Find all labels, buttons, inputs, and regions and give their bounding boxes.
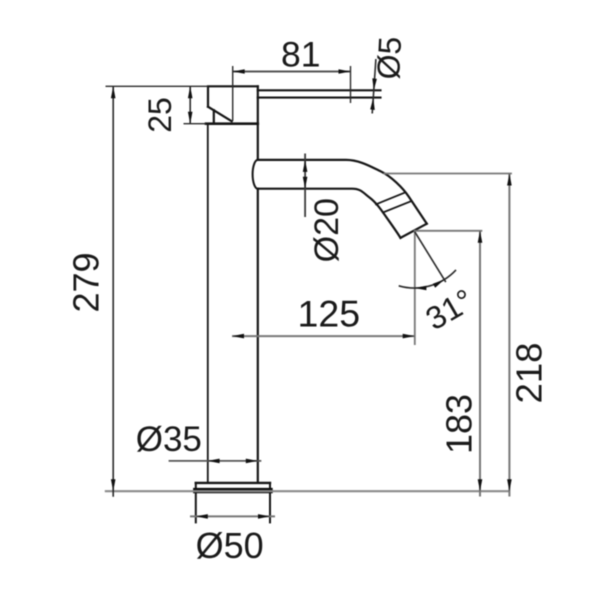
aerator joint line 1 — [376, 193, 405, 205]
svg-text:25: 25 — [142, 97, 178, 133]
svg-text:279: 279 — [66, 252, 107, 312]
svg-text:125: 125 — [298, 293, 361, 335]
angle arc 31 deg — [399, 270, 456, 288]
body left edge — [207, 124, 209, 483]
svg-text:Ø50: Ø50 — [196, 525, 264, 566]
dimension line 279 — [112, 86, 114, 497]
arrow dia5 lower — [370, 98, 375, 110]
arrow 125 right — [403, 334, 415, 339]
body right edge lower — [257, 189, 259, 483]
cartridge housing left short edge — [213, 110, 215, 124]
body right edge upper — [257, 86, 259, 160]
arrow dia35 right — [246, 459, 258, 464]
dimension line 183 — [479, 231, 481, 497]
base flange thick bottom band — [196, 488, 270, 493]
flow direction line 31 deg — [414, 231, 446, 282]
lever bottom line — [258, 97, 381, 99]
svg-text:Ø20: Ø20 — [308, 198, 346, 262]
218 top extension — [384, 173, 512, 175]
dimension line 218 — [508, 174, 510, 497]
arrow dia20 top — [303, 160, 308, 172]
svg-text:Ø35: Ø35 — [136, 420, 202, 459]
arrow dia5 upper — [372, 78, 377, 90]
aerator joint line 2 — [383, 201, 412, 212]
svg-text:81: 81 — [281, 35, 321, 75]
arrow 25 bottom — [188, 112, 193, 124]
head bottom line — [206, 122, 258, 125]
arrow angle arc left — [414, 286, 426, 291]
base flange right edge — [269, 483, 271, 523]
mounting surface line — [105, 490, 510, 492]
arrow 25 top — [188, 86, 193, 98]
arrow 183 top — [478, 231, 483, 243]
dimension line diameter 50 — [190, 515, 275, 517]
base flange left edge — [195, 483, 197, 523]
183 top extension — [414, 230, 483, 232]
lever top line — [258, 89, 381, 91]
handle cap tilted bottom edge — [208, 107, 232, 122]
arrow 218 top — [507, 174, 512, 186]
svg-text:Ø5: Ø5 — [370, 36, 408, 81]
arrow dia50 left — [196, 514, 208, 519]
spout outer (top) edge — [258, 160, 427, 224]
arrow dia20 bottom — [303, 177, 308, 189]
arrow 81 right — [339, 69, 351, 74]
dimension line 81 — [233, 71, 351, 73]
arrow dia35 left — [208, 459, 220, 464]
dimension line diameter 20 — [304, 154, 306, 218]
top extension line (y=86.3) — [106, 85, 209, 87]
base flange top — [196, 482, 270, 484]
arrow 279 top — [111, 86, 116, 98]
81 left extension (into head) — [232, 66, 234, 121]
81 right extension — [350, 66, 352, 103]
arrow dia50 right — [258, 514, 270, 519]
arrow 125 left — [232, 334, 244, 339]
spout inner (bottom) edge — [258, 189, 401, 238]
arrow angle arc right — [433, 280, 445, 288]
svg-text:183: 183 — [439, 394, 480, 454]
arrow 279 bottom — [111, 479, 116, 491]
spout tip face — [401, 224, 427, 238]
arrow 183 bottom — [478, 479, 483, 491]
head bottom extension (25 dim) — [184, 123, 207, 125]
125 right extension (from spout tip down) — [414, 232, 416, 346]
dimension line diameter 5 (tilted) — [372, 59, 376, 114]
dimension line 125 — [232, 335, 415, 337]
handle cap top and left edge — [208, 86, 258, 106]
arrow 81 left — [233, 69, 245, 74]
dimension line 25 — [189, 86, 191, 123]
spout root cap arc — [253, 160, 258, 189]
dimension line diameter 35 — [169, 460, 262, 462]
svg-text:218: 218 — [509, 343, 550, 404]
arrow 218 bottom — [507, 479, 512, 491]
